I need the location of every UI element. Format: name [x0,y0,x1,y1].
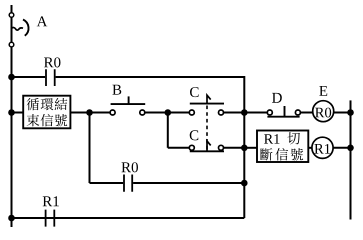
coil R0 label [315,108,331,118]
switch A terminal bottom [9,42,14,47]
wire box1 to node [70,112,89,114]
wire bus to contact D [244,112,267,114]
label B [112,85,121,95]
contact R1 row5 bars [46,210,55,227]
contact B bridge bar [111,103,146,105]
box2 text line2 [260,148,272,160]
wire D to coil R0 [300,112,312,114]
coil R0 [313,101,334,122]
contact D terminal right [295,110,300,115]
label D [272,93,282,103]
vertical bus [243,76,245,218]
contact R0 row1 bars [46,69,55,86]
drop node B-left to row4 [89,113,91,184]
contact D bridge bar [267,116,299,118]
coil R1 label [314,144,330,154]
label A [37,16,48,26]
node right rail row2 [347,109,354,116]
wire coil R0 to right rail [334,112,351,114]
contact B terminal left [110,110,115,115]
node bus row2 [241,109,248,116]
box1 text line1 [27,98,39,110]
label C bottom [190,130,199,140]
contact R0 row4 bars [124,175,132,192]
contact C bottom terminal right [219,145,224,150]
left rail [11,5,13,227]
label R0 row4 [121,162,138,172]
wire node to contact B [90,112,111,114]
wire row4 right to bus [133,182,244,184]
contact C top arrow [207,95,211,103]
node bus row4 [241,180,248,187]
box1 cycle-end-signal [23,96,70,129]
switch A actuator squiggle [12,28,24,31]
wire node2 to contact C top [168,112,190,114]
wire row1 left [12,76,46,78]
box1 text line2 [27,114,40,126]
contact C top terminal right [219,110,224,115]
label R0 row1 [44,57,61,67]
wire row1 right to bus [56,76,245,78]
wire B to node2 [145,112,168,114]
contact C top bridge bar [190,103,224,105]
switch A actuator arc [23,20,29,36]
contact C bottom arrow [207,141,211,151]
coil R1 [312,137,333,158]
wire coil R1 to right rail [333,147,350,149]
node right rail row3 [347,145,354,152]
box2 text R1 [264,134,279,143]
node B C rows [165,109,172,116]
wire box2 to coil R1 [308,147,312,149]
mechanical link dashed [206,106,208,151]
wire row3 to contact C bottom [168,147,190,149]
wire rail to box1 [12,112,24,114]
label E [319,86,327,96]
node box1 B row4 [86,109,93,116]
node bus row3 [241,145,248,152]
right rail [350,100,352,219]
contact B stem [128,96,130,104]
contact C top terminal left [189,110,194,115]
contact C bottom bridge bar [190,150,224,152]
node rail box1 [8,109,15,116]
contact B terminal right [140,110,145,115]
wire bus to box2 [244,147,257,149]
wire C bottom to bus [224,147,245,149]
box2 R1-cutoff-signal [257,131,308,163]
drop node2 to row3 [167,113,169,148]
contact D stem [284,106,286,117]
wire row4 left [90,182,124,184]
node rail row1 [8,74,15,81]
label R1 row5 [43,196,59,206]
label C top [190,87,199,97]
contact D terminal left [267,110,272,115]
contact C bottom terminal left [189,145,194,150]
wire C top to bus [224,112,245,114]
switch A terminal top [9,13,14,18]
node rail row5 [8,215,15,222]
wire row5 bottom [12,217,245,219]
